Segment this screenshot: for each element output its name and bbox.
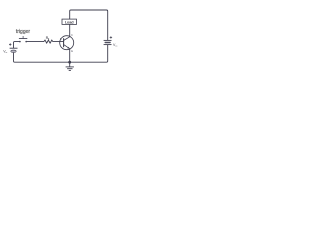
svg-text:E: E	[71, 49, 73, 53]
svg-text:C: C	[71, 33, 73, 37]
svg-text:Load: Load	[65, 20, 74, 25]
svg-text:trigger: trigger	[16, 29, 31, 35]
svg-text:B: B	[60, 37, 62, 41]
